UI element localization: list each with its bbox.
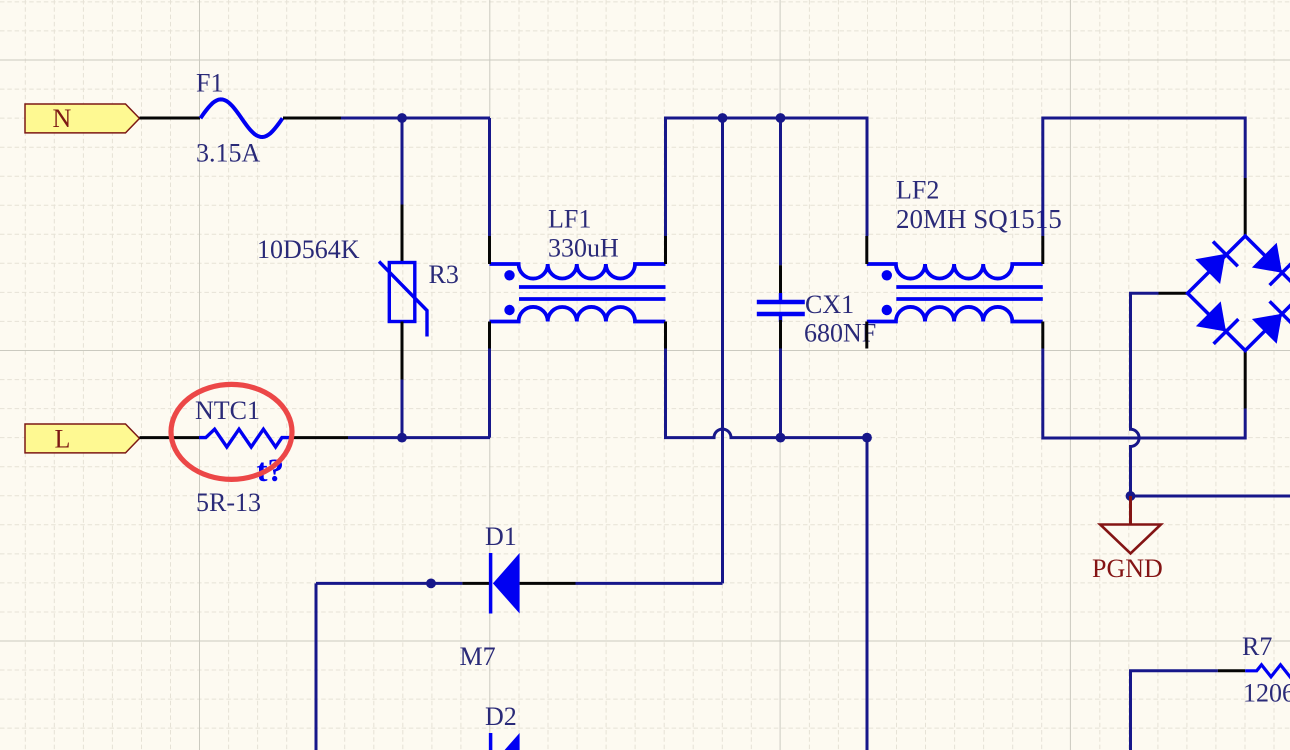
svg-text:CX1: CX1 [805,290,854,319]
wire: L line to LF1 [348,436,490,439]
wire: R7 branch [1131,671,1218,750]
wire: D1 row left [316,582,462,585]
wire: LF1 top-right up and across to LF2 [666,118,868,236]
svg-text:10D564K: 10D564K [257,235,360,264]
thermistor NTC1 [195,396,290,517]
wire: port N to fuse F1 (pin) [140,117,201,120]
svg-text:1206: 1206 [1243,679,1290,708]
wire: junction down to R3 [401,118,404,205]
svg-text:5R-13: 5R-13 [196,488,261,517]
LF1 winding bottom [490,307,666,322]
wire: LF2 bottom-right to bridge bottom [1043,349,1245,439]
wire: left branch down at x=316 [315,583,318,750]
D1 pin right [520,582,576,585]
wire: LF2 top-right up, across and down to bridge [1043,118,1245,236]
port N [25,104,140,133]
LF2 winding bottom [867,307,1043,322]
power port PGND [1092,496,1163,583]
NTC1 pin left [140,436,200,439]
capacitor CX1 [757,290,876,348]
svg-text:LF2: LF2 [896,176,939,205]
resistor R7 [1242,632,1290,708]
LF1 polarity dots [504,270,514,280]
bridge top pin [1244,178,1247,236]
wire: N line to LF1 [341,117,490,120]
svg-text:N: N [53,104,72,133]
wire: LF1 bottom-left down to L line [488,349,491,438]
junction on top bus at x=722 [718,113,728,123]
bridge diode bottom-right [1252,314,1282,344]
diode D2 (partially visible) [485,702,520,750]
NTC1 pin right [290,436,348,439]
bridge diode top-left [1195,254,1225,284]
wire: D1 to x=722 vertical [576,582,723,585]
wire: R3 to L line [401,380,404,438]
bridge left pin [1159,292,1188,295]
LF1 pins (black stubs) [490,236,666,349]
wire: bottom bus down to bottom edge at x=867 [866,438,869,750]
svg-text:M7: M7 [460,642,496,671]
wire: LF1 bottom-right to bottom bus with hop over x=722 [666,349,868,438]
LF1 winding top [490,264,666,279]
svg-text:3.15A: 3.15A [196,139,261,168]
LF2 polarity dots [882,270,892,280]
wire: bridge minus output to PGND node (hop over bottom bus) [1131,293,1159,496]
wire: LF1 top-left up to N line [488,118,491,236]
svg-text:NTC1: NTC1 [195,396,260,425]
svg-text:D1: D1 [485,522,517,551]
LF2 pins (black stubs) [867,236,1043,349]
R3 pin bottom [401,322,404,380]
wire: vertical x=722 from top bus to D1 row [721,118,724,583]
bridge diode bottom-left [1196,301,1226,331]
junction bottom bus at LF2 [862,433,872,443]
junction at PGND node [1126,491,1136,501]
wire: fuse F1 right pin [283,117,341,120]
svg-text:F1: F1 [196,69,223,98]
svg-text:20MH SQ1515: 20MH SQ1515 [896,204,1062,234]
wire: PGND node to right edge [1131,495,1290,498]
LF1 labels [548,205,619,263]
diode D1 [485,522,520,614]
svg-text:L: L [55,424,71,453]
junction at L/R3 node [397,433,407,443]
varistor R3 [257,235,459,337]
wire: CX1 to bottom bus [779,349,782,438]
junction bottom bus at CX1 [776,433,786,443]
D1 pin left [462,582,490,585]
CX1 pin bottom [779,320,782,349]
bridge diode top-right [1252,243,1282,273]
svg-text:LF1: LF1 [548,205,591,234]
LF2 labels [896,176,1062,234]
LF2 core lines [896,285,1043,289]
wire: top bus down to CX1 [779,118,782,265]
bridge bottom pin [1244,351,1247,409]
svg-text:R7: R7 [1242,632,1272,661]
svg-text:D2: D2 [485,702,517,731]
bridge diamond [1188,236,1290,351]
CX1 pin top [779,265,782,294]
junction at N/R3 node [397,113,407,123]
svg-text:330uH: 330uH [548,234,619,263]
R3 pin top [401,205,404,263]
port L [25,424,140,453]
LF1 core lines [519,285,666,289]
svg-text:PGND: PGND [1092,554,1163,583]
svg-text:R3: R3 [429,260,459,289]
LF2 winding top [867,264,1043,279]
fuse F1 body [196,69,283,168]
R7 pin left [1218,669,1245,672]
junction on D1 wire [426,579,436,589]
highlight ellipse around NTC1 [171,384,292,479]
junction on top bus at x=780 [776,113,786,123]
